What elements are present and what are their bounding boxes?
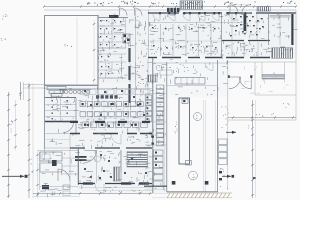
porch steps hatch <box>262 75 285 78</box>
hall north line <box>167 85 217 87</box>
dim v right1 <box>252 100 254 198</box>
saal label <box>70 45 73 48</box>
dark pier <box>244 14 247 31</box>
left edge symbol 1 <box>6 15 9 18</box>
hall column 2 <box>205 181 209 185</box>
kitchen wall segs <box>70 133 80 135</box>
right rooms partitions <box>231 14 233 40</box>
small boxes SW <box>63 185 70 190</box>
stairs hatch SE <box>273 48 293 58</box>
bottom left clutter <box>45 152 47 154</box>
bc door arc <box>85 151 97 163</box>
dimension text top <box>94 3 95 4</box>
stairs block south <box>127 153 148 167</box>
hall text rotated <box>174 132 177 135</box>
room partitions row2 <box>160 24 162 56</box>
wash bottom left <box>38 150 78 196</box>
corridor lines mid <box>154 62 228 64</box>
bc south wall <box>78 183 95 185</box>
locker hatch box <box>148 75 158 82</box>
right small specks <box>285 106 288 109</box>
service corridor <box>44 84 98 86</box>
corridor marks <box>136 20 142 26</box>
east side dark bits <box>219 171 222 173</box>
cooking line dark <box>96 95 99 98</box>
dim v left2 <box>15 100 17 150</box>
insulation hatch <box>270 16 291 17</box>
wc south rooms <box>98 53 126 55</box>
stairs hatch right <box>258 7 269 12</box>
corridor door arcs top <box>153 13 160 20</box>
door arc mid <box>205 63 213 71</box>
bc walls <box>96 150 98 183</box>
wc dark sill <box>109 15 119 18</box>
dim mark right <box>253 177 256 179</box>
right dark wall <box>291 14 293 45</box>
wc outer wall <box>97 16 99 105</box>
hall south wall <box>167 191 218 193</box>
kitchen sills <box>70 121 78 123</box>
wash wc block <box>97 12 149 85</box>
stairs top hatch <box>181 1 202 9</box>
dim text left <box>10 120 13 123</box>
arrow east lower <box>222 175 231 177</box>
dim v left5 <box>37 150 39 198</box>
hall symbol 2 <box>189 171 198 180</box>
south wall kitchen <box>70 147 85 149</box>
dim h bottom <box>33 193 152 195</box>
mid corridor arcs <box>111 134 121 144</box>
climb top box <box>182 99 188 104</box>
wing north wall <box>148 12 179 14</box>
hall west wall <box>166 62 168 192</box>
right facade line <box>295 10 297 120</box>
dimension line top <box>44 6 296 8</box>
counter row2 <box>160 70 172 75</box>
wash kitchen <box>44 85 152 149</box>
wash top wing <box>148 12 296 58</box>
locker clutter <box>162 187 164 190</box>
storage rects <box>40 152 62 161</box>
hall symbol 1 <box>194 113 202 121</box>
wc fixtures <box>100 20 101 21</box>
porch outline <box>228 61 296 63</box>
corridor wall <box>135 10 137 104</box>
mid wall right <box>222 40 244 42</box>
wc2 partitions <box>60 98 62 122</box>
kitchen dark accents <box>84 90 86 92</box>
terrace hatch <box>167 193 230 198</box>
right rooms door arcs <box>230 5 238 13</box>
dim h right <box>228 117 296 119</box>
wc door arc 1 <box>120 8 128 16</box>
storage north line <box>38 150 78 152</box>
bc arc south <box>95 184 104 193</box>
hall inner lines <box>203 100 205 192</box>
shaft block <box>123 34 130 43</box>
stair landing blocks <box>167 8 170 12</box>
kitchen grid <box>80 105 148 107</box>
bc text specks <box>111 189 114 192</box>
locker boxes col2 <box>156 85 164 89</box>
changing room lines <box>145 121 166 123</box>
wc door arcs south <box>105 62 112 69</box>
counter row <box>175 78 205 85</box>
thick wall shaft <box>128 48 130 62</box>
locker boxes col3 <box>154 150 164 155</box>
bc lower lines <box>78 187 152 189</box>
row2 dark bits <box>152 27 154 28</box>
wc partitions <box>98 25 126 27</box>
kitchen north details <box>80 90 87 95</box>
locker boxes col1 <box>145 95 152 100</box>
locker dark dots <box>152 136 154 138</box>
wash mid band <box>148 57 230 97</box>
boundary line top <box>44 9 296 11</box>
wc door arc 2 <box>135 8 143 16</box>
storage lines <box>62 157 78 159</box>
right row3 partitions <box>231 42 233 57</box>
stage window bars <box>75 156 87 158</box>
storage dark blob <box>52 160 57 166</box>
corridor lines2 <box>44 139 70 141</box>
bottom center clutter <box>81 185 83 189</box>
saal stage steps <box>47 87 66 90</box>
wing corridor south <box>148 22 242 24</box>
porch rails <box>261 62 263 75</box>
wing south wall <box>148 57 157 59</box>
locker strip south wall <box>144 185 167 187</box>
left edge symbol 2 <box>0 37 3 40</box>
bc sills <box>83 182 93 184</box>
hall column 1 <box>172 181 176 185</box>
corridor door arcs <box>130 62 136 68</box>
storage south line <box>40 186 78 188</box>
wc2 door arc <box>63 122 74 133</box>
vert hatch band <box>115 167 119 181</box>
row2 fixtures <box>154 27 157 30</box>
west wall storage <box>77 148 79 185</box>
arrow east <box>226 131 236 133</box>
climbing wall rect <box>179 98 190 164</box>
east room boxes <box>219 139 228 145</box>
west ramp lines <box>23 84 46 86</box>
service north wall <box>44 85 46 149</box>
top wing clutter <box>249 50 251 52</box>
door jambs top wing <box>159 12 161 14</box>
kitchen equipment rows <box>80 102 86 107</box>
wash bottom center <box>75 148 152 193</box>
wc block clutter <box>114 31 119 33</box>
locker wall dark <box>152 58 154 193</box>
washbasin row <box>60 90 63 93</box>
storage door arc <box>58 169 70 181</box>
wash locker strip <box>144 58 167 192</box>
porch clutter <box>264 80 266 84</box>
climb bottom box <box>186 161 192 166</box>
saal dim line <box>93 20 95 84</box>
saal dim line 2 <box>76 17 78 85</box>
arrow west <box>2 175 24 177</box>
wc2 fixtures <box>52 100 53 101</box>
dark block SW <box>42 185 49 189</box>
dim v left4 <box>32 83 34 198</box>
drain circle <box>95 156 101 162</box>
bc dark accents <box>100 154 102 156</box>
right rooms fixtures <box>240 16 242 17</box>
mid band clutter <box>169 80 171 84</box>
hall east wall <box>217 60 219 192</box>
dim v left1 <box>8 92 10 198</box>
east wall2 <box>227 60 229 190</box>
saal walls <box>45 16 99 86</box>
entry double door <box>229 77 241 89</box>
dim v left3 <box>28 83 30 198</box>
wc2 south wall dark <box>45 121 76 123</box>
bottom right lines <box>152 197 232 199</box>
kitchen clutter <box>126 112 128 116</box>
